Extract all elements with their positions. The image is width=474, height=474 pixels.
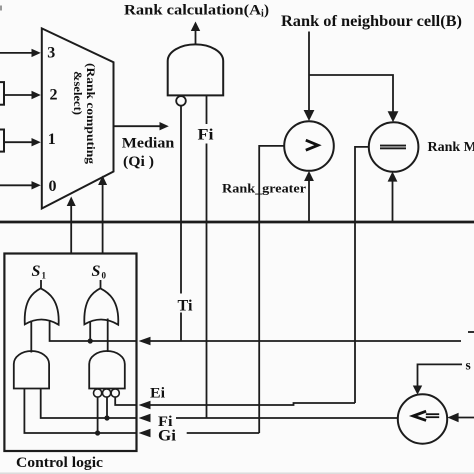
wire branch to == comparator (309, 75, 393, 113)
svg-text:Control logic: Control logic (16, 455, 103, 471)
svg-text:Median: Median (122, 136, 175, 152)
AND2 bubble right (111, 389, 119, 397)
register box D2 (0, 82, 4, 105)
svg-text:Fi: Fi (198, 127, 215, 144)
svg-text:): ) (264, 3, 269, 19)
arrowhead row 1 (32, 138, 41, 146)
arrowhead median (160, 122, 169, 130)
svg-text:Rank calculation(A: Rank calculation(A (124, 3, 261, 19)
wire from Rank-of-neighbour label down to > comparator (308, 32, 310, 112)
bottom faint rule (0, 473, 474, 474)
AND gate A2 (89, 351, 125, 389)
AND gate A1 (14, 351, 49, 388)
arrowhead select S1 up (67, 197, 76, 207)
wire OR2 left input to Ti row (89, 321, 91, 341)
svg-text:Ei: Ei (150, 386, 165, 402)
svg-text:Rank_greater: Rank_greater (222, 181, 306, 196)
comparator > circle (284, 121, 334, 171)
register box D1 (0, 130, 4, 152)
wire input row 2 (4, 94, 34, 96)
top-left tick fragment (0, 6, 2, 11)
OR gate O2 output stub (100, 280, 102, 289)
arrowhead row 0 (32, 181, 41, 189)
comparator == circle (369, 122, 419, 172)
wire AND1 right input from Fi row (41, 388, 137, 418)
arrowhead bus up into == (388, 172, 398, 182)
arrowhead select S0 up (98, 176, 107, 186)
wire select S1 to mux (70, 205, 72, 254)
arrowhead Fi into box (139, 414, 151, 423)
AND2 bubble left (94, 389, 102, 397)
arrowhead row 2 (32, 91, 41, 99)
wire Gi to > comparator left input (259, 146, 284, 433)
wire OR1 right input to Ti row (50, 322, 137, 342)
wire AND2 left bubble to Gi dot (97, 397, 99, 433)
NAND output wire up (195, 31, 197, 45)
svg-text:Rank M: Rank M (428, 140, 474, 155)
wire Gi row inside box to edge (98, 432, 137, 434)
tiny dash right edge (468, 331, 474, 333)
wire OR1 left input / AND1 output (30, 321, 32, 353)
svg-text:Gi: Gi (158, 428, 177, 445)
AND2 bubble middle (103, 389, 111, 397)
svg-text:3: 3 (47, 45, 55, 62)
svg-text:s: s (466, 358, 471, 373)
svg-text:Rank of neighbour cell(B): Rank of neighbour cell(B) (281, 13, 462, 30)
svg-text:1: 1 (42, 271, 47, 281)
wire Ti row external (150, 340, 461, 342)
bus main horizontal (0, 221, 474, 224)
svg-text:S: S (32, 263, 41, 280)
junction dot Gi row (95, 430, 100, 435)
arrowhead NAND output up (191, 22, 200, 32)
wire right edge into <= comparator (457, 417, 474, 419)
junction dot Fi row (104, 415, 109, 420)
mux (Rank computing & select) trapezoid (42, 28, 114, 208)
svg-text:(Qi ): (Qi ) (123, 154, 154, 170)
wire Fi vertical long (206, 144, 208, 419)
OR gate O2 (84, 288, 118, 324)
arrowhead Ei into box (139, 401, 151, 410)
arrowhead bus up into > (304, 171, 314, 181)
label <= in comparator (413, 411, 426, 420)
wire Ti lower segment (180, 313, 182, 342)
OR gate O1 (25, 288, 59, 324)
arrowhead Ti into box (139, 337, 151, 346)
wire input row 0 (0, 184, 34, 186)
control logic box (4, 254, 136, 452)
svg-text:Ti: Ti (178, 298, 194, 315)
arrowhead row 3 (32, 49, 41, 57)
wire AND2 right bubble to Ei row (115, 397, 136, 405)
svg-text:2: 2 (50, 87, 58, 104)
wire input row 3 (0, 52, 34, 54)
wire NAND left input to Ti node (upper segment) (180, 106, 182, 294)
wire Fi row external (176, 417, 398, 419)
comparator <= circle (398, 394, 447, 443)
svg-text:S: S (92, 263, 101, 280)
op-amp U1 NAND gate body (168, 44, 224, 95)
arrowhead B down into > (304, 110, 315, 121)
OR gate O1 output stub (40, 280, 42, 289)
junction dot Ti/OR2 (88, 338, 93, 343)
arrowhead right into <= (447, 413, 458, 423)
svg-text:&select): &select) (71, 71, 85, 115)
NAND input bubble (176, 96, 186, 106)
wire median output (115, 125, 162, 127)
svg-text:0: 0 (49, 178, 57, 195)
wire bus to == comparator (392, 181, 394, 222)
wire s label to <= comparator (418, 364, 463, 387)
wire OR2 right input / AND2 output (107, 319, 109, 353)
wire AND2 middle bubble to Fi dot (106, 397, 108, 418)
label > in comparator (306, 140, 318, 150)
arrowhead Gi into box (139, 429, 151, 438)
svg-text:0: 0 (102, 271, 107, 281)
svg-text:1: 1 (48, 131, 56, 148)
wire Ei row external with jog (150, 403, 355, 405)
wire Ei to == comparator left input (355, 147, 369, 403)
wire bus to > comparator (308, 180, 310, 222)
wire Gi row external (187, 432, 260, 434)
wire select S0 to mux (102, 184, 104, 254)
arrowhead B down into == (388, 111, 399, 122)
wire input row 1 (4, 141, 34, 143)
arrowhead s down into <= (413, 386, 422, 395)
svg-text:(Rank computing: (Rank computing (84, 63, 98, 164)
wire NAND right input Fi (upper stub) (206, 95, 208, 124)
wire AND1 left input from Gi row (24, 388, 97, 433)
